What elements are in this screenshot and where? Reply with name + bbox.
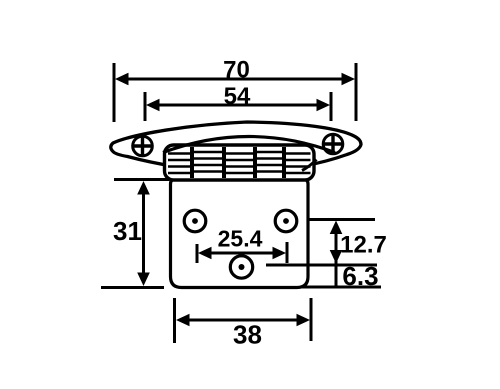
- svg-text:54: 54: [224, 83, 251, 110]
- svg-text:31: 31: [113, 216, 142, 246]
- svg-text:38: 38: [233, 320, 262, 350]
- svg-text:25.4: 25.4: [218, 226, 263, 252]
- svg-text:70: 70: [223, 57, 250, 84]
- svg-text:12.7: 12.7: [340, 232, 387, 259]
- svg-text:6.3: 6.3: [342, 261, 378, 291]
